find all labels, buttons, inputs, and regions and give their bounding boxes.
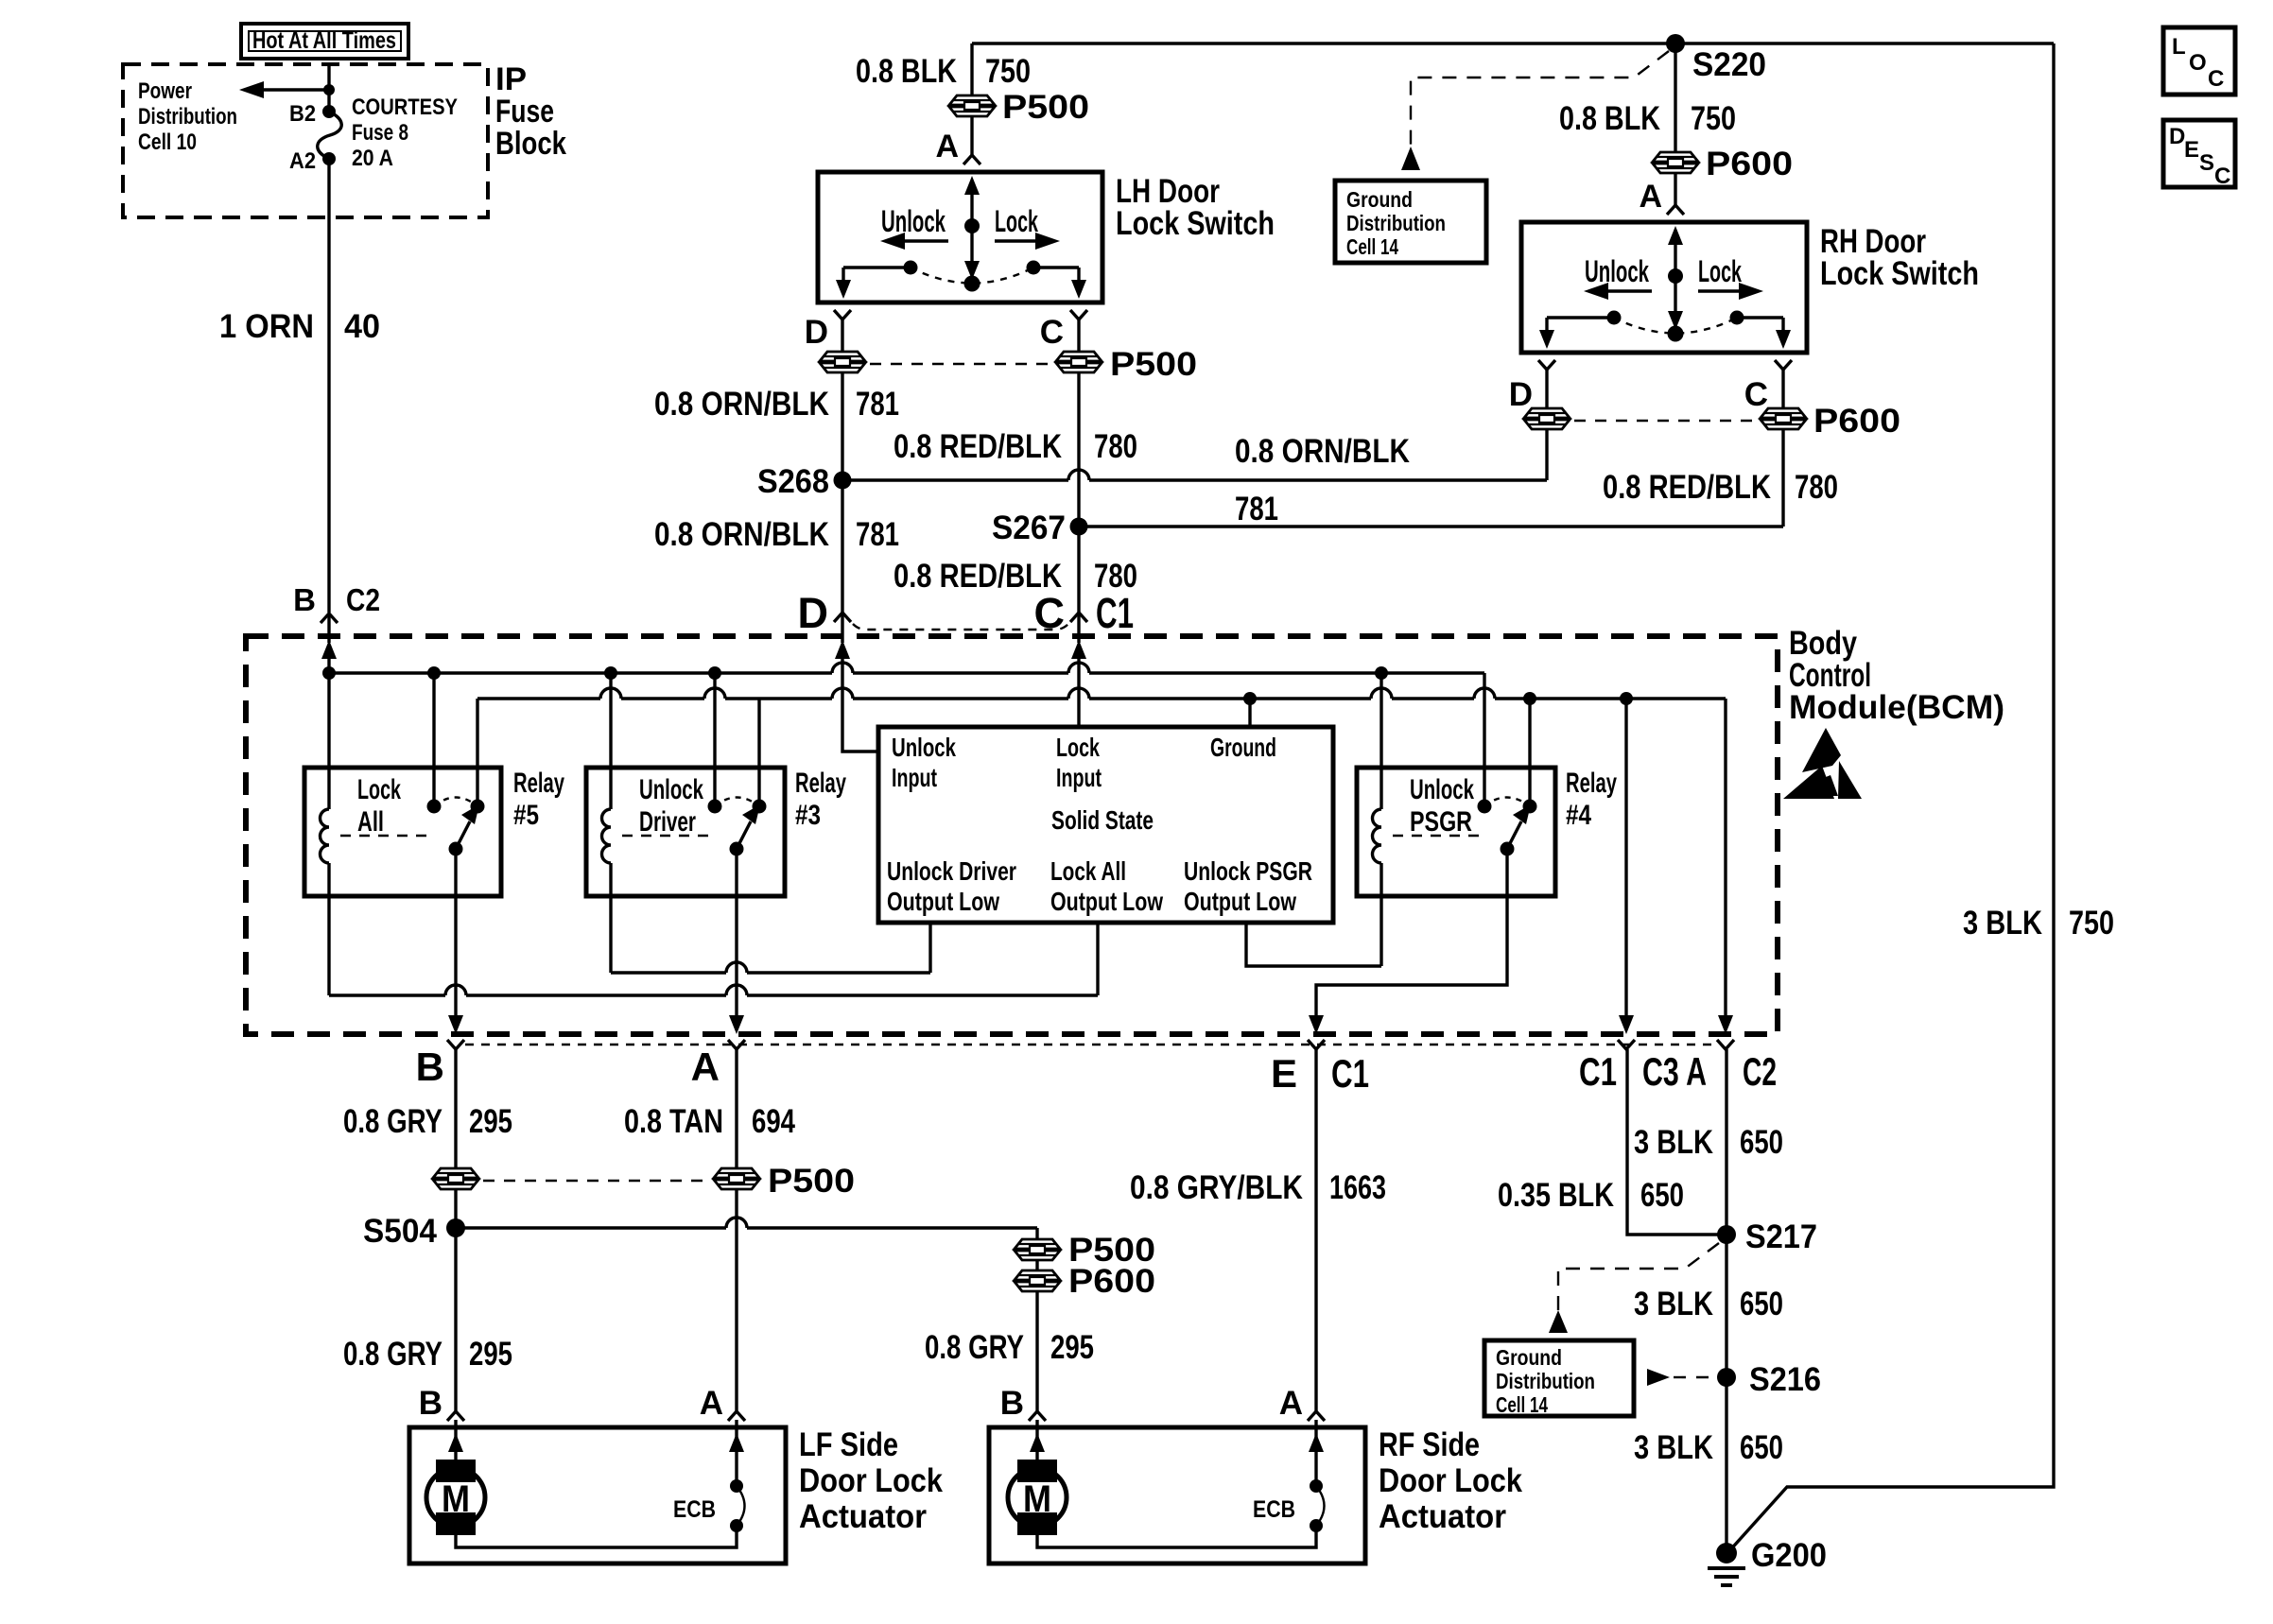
svg-text:S216: S216 bbox=[1749, 1361, 1821, 1398]
svg-text:20 A: 20 A bbox=[352, 146, 393, 171]
Solid State labels bbox=[887, 733, 1312, 916]
fuse COURTESY Fuse 8 20 A bbox=[318, 105, 342, 165]
svg-text:0.8 GRY/BLK: 0.8 GRY/BLK bbox=[1130, 1169, 1303, 1206]
svg-text:Unlock: Unlock bbox=[881, 204, 946, 238]
relay Unlock PSGR (Relay #4) box bbox=[1357, 768, 1555, 896]
svg-text:A: A bbox=[691, 1045, 720, 1089]
svg-text:Actuator: Actuator bbox=[1379, 1498, 1506, 1535]
wire Unlock Driver common to BCM pin A bbox=[729, 849, 744, 1034]
wire LH D P500 down to BCM pin D (0.8 ORN/BLK 781) bbox=[841, 372, 843, 613]
svg-text:Distribution: Distribution bbox=[1346, 211, 1446, 235]
wire LH D to P500 bbox=[841, 320, 843, 352]
connector P500 (RF branch) bbox=[1015, 1232, 1155, 1269]
connector P500 (B wire) bbox=[433, 1168, 478, 1189]
svg-text:0.8 GRY: 0.8 GRY bbox=[925, 1329, 1024, 1366]
svg-text:E: E bbox=[1271, 1051, 1297, 1096]
svg-text:3 BLK: 3 BLK bbox=[1963, 905, 2042, 942]
ESD sensitivity symbol bbox=[1783, 728, 1862, 799]
svg-text:A: A bbox=[1639, 179, 1662, 215]
LF Side Door Lock Actuator label bbox=[799, 1426, 943, 1535]
RF Side Door Lock Actuator box bbox=[989, 1427, 1365, 1564]
wire label 0.8 BLK 750 (LH) bbox=[856, 53, 1031, 90]
connector chevron at LH switch pin C bbox=[1070, 310, 1087, 320]
wire Lock All common to BCM pin B bbox=[448, 849, 463, 1034]
wire P600 to RF actuator B (0.8 GRY 295) bbox=[1035, 1291, 1038, 1411]
wire Lock All coil to Lock All Output Low bbox=[329, 923, 1098, 995]
svg-text:0.8 ORN/BLK: 0.8 ORN/BLK bbox=[654, 516, 829, 553]
wire label 0.8 GRY/BLK 1663 bbox=[1130, 1169, 1386, 1206]
svg-text:750: 750 bbox=[2069, 905, 2114, 942]
svg-text:C1: C1 bbox=[1579, 1049, 1617, 1094]
svg-text:IP: IP bbox=[495, 61, 527, 97]
wire from Hot At All Times into fuse block bbox=[327, 62, 330, 112]
Unlock PSGR relay contacts bbox=[1393, 673, 1537, 856]
Solid State box bbox=[878, 727, 1333, 923]
LH switch internals bbox=[836, 176, 1086, 299]
svg-text:781: 781 bbox=[1235, 491, 1278, 527]
svg-text:3 BLK: 3 BLK bbox=[1634, 1429, 1713, 1466]
wire label 0.8 ORN/BLK 781 (upper) bbox=[654, 386, 899, 423]
Body Control Module (BCM) dashed box bbox=[246, 636, 1778, 1034]
connector chevron at BCM pin D bbox=[834, 613, 851, 622]
svg-text:3 BLK: 3 BLK bbox=[1634, 1286, 1713, 1322]
wire S216 to G200 (3 BLK 650) bbox=[1725, 1377, 1727, 1553]
svg-text:Lock: Lock bbox=[1056, 733, 1100, 762]
connector chevron at RF actuator pin A bbox=[1308, 1411, 1325, 1421]
svg-text:Distribution: Distribution bbox=[138, 104, 237, 130]
wire Unlock PSGR common to BCM pin E bbox=[1309, 849, 1507, 1034]
svg-text:Ground: Ground bbox=[1496, 1345, 1562, 1370]
RF Side Door Lock Actuator label bbox=[1379, 1426, 1522, 1535]
ground G200 bbox=[1708, 1537, 1827, 1585]
svg-text:Power: Power bbox=[138, 78, 192, 104]
splice S268 bbox=[757, 463, 852, 500]
svg-text:694: 694 bbox=[752, 1103, 795, 1140]
splice S216 bbox=[1717, 1361, 1821, 1398]
wire D entry to Unlock Input (hops buses) bbox=[842, 663, 878, 752]
splice S220 bbox=[1666, 34, 1766, 83]
svg-text:Relay: Relay bbox=[1566, 768, 1617, 799]
svg-text:650: 650 bbox=[1740, 1124, 1783, 1161]
svg-text:0.8 GRY: 0.8 GRY bbox=[343, 1103, 442, 1140]
svg-text:A2: A2 bbox=[289, 148, 316, 174]
svg-text:P600: P600 bbox=[1706, 146, 1793, 182]
svg-text:1 ORN: 1 ORN bbox=[219, 308, 314, 345]
connector chevron at LH switch pin A bbox=[963, 155, 980, 164]
svg-text:Lock: Lock bbox=[357, 774, 401, 805]
wire RH D to P600 bbox=[1545, 370, 1548, 408]
svg-text:1663: 1663 bbox=[1329, 1169, 1386, 1206]
svg-text:P600: P600 bbox=[1813, 403, 1900, 440]
svg-text:Solid State: Solid State bbox=[1051, 805, 1154, 835]
BCM entry arrow at pin C2 bbox=[321, 640, 337, 673]
internal bus 1 (battery feed) bbox=[322, 663, 1484, 680]
svg-text:781: 781 bbox=[856, 516, 899, 553]
svg-text:C: C bbox=[2208, 66, 2224, 92]
dashed reference arrow to S216 bbox=[1647, 1369, 1713, 1386]
svg-text:0.8 TAN: 0.8 TAN bbox=[624, 1103, 723, 1140]
svg-text:Hot At All Times: Hot At All Times bbox=[252, 27, 396, 54]
wire label 0.8 GRY 295 bbox=[343, 1103, 512, 1140]
svg-text:Module(BCM): Module(BCM) bbox=[1789, 689, 2004, 726]
svg-text:0.8 ORN/BLK: 0.8 ORN/BLK bbox=[1235, 433, 1410, 470]
connector chevron at BCM pin C bbox=[1070, 613, 1087, 622]
svg-text:0.8 ORN/BLK: 0.8 ORN/BLK bbox=[654, 386, 829, 423]
wire LH C to P500 bbox=[1077, 320, 1080, 352]
svg-text:B: B bbox=[1000, 1385, 1024, 1422]
wire C entry to Lock Input (hops buses) bbox=[1077, 663, 1080, 727]
svg-text:ECB: ECB bbox=[1253, 1496, 1295, 1523]
Lock All label bbox=[357, 774, 401, 838]
connector chevron at BCM pin C2 (bottom right) bbox=[1717, 1040, 1734, 1049]
LH Door Lock Switch label bbox=[1116, 173, 1275, 242]
wire 1 ORN 40 from fuse to BCM pin C2 bbox=[327, 159, 330, 613]
svg-text:Driver: Driver bbox=[639, 806, 696, 838]
wire label 0.8 BLK 750 (RH) bbox=[1559, 100, 1736, 137]
wire 3 BLK 750 right side from top bus to G200 bbox=[1727, 43, 2054, 1553]
Relay #4 label bbox=[1566, 768, 1617, 831]
Lock All relay coil bbox=[321, 673, 330, 995]
svg-text:0.8 BLK: 0.8 BLK bbox=[856, 53, 957, 90]
wire S217 to S216 (3 BLK 650) bbox=[1725, 1235, 1727, 1377]
svg-text:LF Side: LF Side bbox=[799, 1426, 898, 1463]
svg-text:Lock Switch: Lock Switch bbox=[1820, 255, 1979, 292]
BCM entry arrow at pin D bbox=[835, 640, 850, 663]
wire BCM C2 to S217 (3 BLK 650) bbox=[1725, 1049, 1727, 1235]
connector P600 (RF branch) bbox=[1015, 1260, 1155, 1300]
BCM entry arrow at pin C bbox=[1071, 640, 1086, 663]
svg-text:A: A bbox=[935, 129, 959, 164]
internal bus 2 bbox=[477, 688, 1726, 705]
wire BCM B to P500 (0.8 GRY 295) bbox=[454, 1049, 457, 1168]
svg-text:B: B bbox=[419, 1385, 442, 1422]
Relay #3 label bbox=[795, 768, 846, 831]
wire label 0.8 ORN/BLK 781 (on long run) bbox=[1235, 433, 1410, 527]
wire label 3 BLK 650 (lower) bbox=[1634, 1429, 1783, 1466]
pin label B C2 at BCM top bbox=[293, 582, 380, 617]
svg-text:Block: Block bbox=[495, 126, 566, 162]
svg-text:Unlock: Unlock bbox=[1410, 774, 1474, 805]
relay Lock All (Relay #5) box bbox=[304, 768, 501, 896]
relay Unlock Driver (Relay #3) box bbox=[586, 768, 785, 896]
svg-text:Relay: Relay bbox=[513, 768, 564, 799]
svg-text:E: E bbox=[2184, 137, 2199, 163]
connector chevron at RH switch pin C bbox=[1775, 360, 1792, 370]
svg-text:295: 295 bbox=[1050, 1329, 1094, 1366]
wire label 0.8 RED/BLK 780 (upper) bbox=[894, 428, 1137, 465]
wire Unlock PSGR Output Low to coil bbox=[1246, 923, 1381, 966]
wire S268 to RH switch pin D (hop over LH C wire) bbox=[842, 429, 1547, 480]
pin E C1 label (BCM bottom) bbox=[1271, 1051, 1369, 1096]
splice S504 bbox=[363, 1213, 465, 1250]
svg-text:A: A bbox=[1279, 1385, 1303, 1422]
svg-text:#4: #4 bbox=[1566, 800, 1591, 831]
wire down to LH switch P500 bbox=[970, 43, 973, 95]
svg-text:Unlock: Unlock bbox=[892, 733, 956, 762]
LF actuator internal wire to ECB bbox=[456, 1526, 737, 1547]
LF actuator ECB switch bbox=[673, 1427, 745, 1532]
IP Fuse Block dashed box bbox=[123, 64, 488, 217]
svg-text:0.8 GRY: 0.8 GRY bbox=[343, 1336, 442, 1373]
svg-text:S267: S267 bbox=[992, 510, 1066, 546]
svg-text:Door Lock: Door Lock bbox=[1379, 1462, 1522, 1499]
svg-text:COURTESY: COURTESY bbox=[352, 95, 458, 120]
RH Door Lock Switch label bbox=[1820, 223, 1979, 292]
LOC reference box bbox=[2163, 27, 2235, 95]
svg-text:Input: Input bbox=[1056, 763, 1102, 792]
connector C1 dashed outline (BCM top) bbox=[853, 624, 1068, 630]
svg-text:Lock: Lock bbox=[995, 204, 1038, 238]
svg-text:All: All bbox=[357, 806, 384, 838]
connector P500 (A wire) bbox=[483, 1163, 855, 1200]
svg-text:S220: S220 bbox=[1692, 46, 1766, 83]
svg-text:C: C bbox=[1040, 314, 1064, 351]
svg-text:L: L bbox=[2172, 34, 2186, 60]
RF actuator motor M bbox=[1008, 1427, 1067, 1535]
wire S504 to RF actuator branch (hop over A wire) bbox=[456, 1218, 1037, 1239]
dashed reference from S220 to Ground Distribution Cell 14 bbox=[1401, 51, 1669, 170]
splice S267 bbox=[992, 510, 1088, 546]
svg-text:650: 650 bbox=[1740, 1286, 1783, 1322]
svg-text:40: 40 bbox=[344, 308, 380, 345]
svg-text:M: M bbox=[1023, 1478, 1051, 1520]
svg-text:PSGR: PSGR bbox=[1410, 806, 1472, 838]
svg-text:781: 781 bbox=[856, 386, 899, 423]
connector chevron at BCM pin E (bottom) bbox=[1308, 1040, 1325, 1049]
wire label 0.8 TAN 694 bbox=[624, 1103, 795, 1140]
wire 0.8 BLK 750 top bus from LH switch to right edge bbox=[972, 42, 2054, 44]
svg-text:S504: S504 bbox=[363, 1213, 438, 1250]
Power Distribution Cell 10 label bbox=[138, 78, 237, 155]
connector chevron at BCM pin B (bottom) bbox=[447, 1040, 464, 1049]
Lock All relay contacts bbox=[340, 673, 485, 856]
svg-text:0.35 BLK: 0.35 BLK bbox=[1498, 1177, 1614, 1214]
svg-text:Ground: Ground bbox=[1346, 187, 1413, 212]
wire label 0.8 RED/BLK 780 (lower) bbox=[894, 558, 1137, 595]
svg-text:#5: #5 bbox=[513, 800, 539, 831]
svg-text:Door Lock: Door Lock bbox=[799, 1462, 943, 1499]
svg-text:P600: P600 bbox=[1068, 1263, 1155, 1300]
wire LH C P500 down to BCM pin C (0.8 RED/BLK 780) bbox=[1077, 372, 1080, 613]
svg-text:Input: Input bbox=[892, 763, 937, 792]
svg-text:D: D bbox=[2169, 124, 2185, 149]
svg-text:C1: C1 bbox=[1331, 1051, 1369, 1096]
wire label 0.35 BLK 650 bbox=[1498, 1177, 1684, 1214]
wire S267 to RH switch pin C bbox=[1079, 429, 1783, 527]
svg-text:D: D bbox=[805, 314, 828, 351]
wire P500 to S504 bbox=[454, 1189, 457, 1228]
Unlock Driver relay coil bbox=[602, 673, 612, 973]
svg-text:Actuator: Actuator bbox=[799, 1498, 927, 1535]
svg-text:M: M bbox=[442, 1478, 470, 1520]
wire P500 to LH switch pin A bbox=[970, 116, 973, 155]
wire P500 A to LF actuator A bbox=[735, 1189, 737, 1411]
svg-text:Lock: Lock bbox=[1698, 254, 1742, 288]
Hot At All Times box bbox=[241, 24, 408, 59]
svg-text:Ground: Ground bbox=[1210, 733, 1276, 762]
wire label 0.8 GRY 295 (lower left) bbox=[343, 1336, 512, 1373]
svg-text:#3: #3 bbox=[795, 800, 821, 831]
svg-text:Fuse 8: Fuse 8 bbox=[352, 120, 408, 146]
RF actuator ECB switch bbox=[1253, 1427, 1325, 1532]
wire label 3 BLK 750 bbox=[1963, 905, 2114, 942]
connector P500 pair below LH switch bbox=[820, 346, 1197, 383]
svg-text:3 BLK: 3 BLK bbox=[1634, 1124, 1713, 1161]
wire Unlock Driver coil to Unlock Driver Output Low bbox=[611, 923, 930, 973]
connector chevron at BCM pin C1 (bottom right) bbox=[1618, 1040, 1635, 1049]
connector chevron at RH switch pin D bbox=[1538, 360, 1555, 370]
svg-text:C3 A: C3 A bbox=[1642, 1049, 1707, 1094]
svg-text:G200: G200 bbox=[1751, 1537, 1827, 1574]
wire S220 down to P600 bbox=[1674, 43, 1676, 152]
wire bus2 to BCM pin C2 bbox=[1718, 699, 1733, 1034]
svg-text:Unlock Driver: Unlock Driver bbox=[887, 856, 1016, 886]
IP Fuse Block label bbox=[495, 61, 566, 162]
splice S217 bbox=[1717, 1218, 1817, 1255]
svg-text:Unlock: Unlock bbox=[639, 774, 703, 805]
wire BCM E to RF actuator A (0.8 GRY/BLK 1663) bbox=[1314, 1049, 1317, 1411]
svg-text:Relay: Relay bbox=[795, 768, 846, 799]
svg-text:Unlock PSGR: Unlock PSGR bbox=[1184, 856, 1312, 886]
wire label 0.8 ORN/BLK 781 (lower) bbox=[654, 516, 899, 553]
svg-text:750: 750 bbox=[985, 53, 1031, 90]
svg-text:Lock All: Lock All bbox=[1050, 856, 1126, 886]
svg-text:Cell 10: Cell 10 bbox=[138, 130, 197, 155]
svg-text:Distribution: Distribution bbox=[1496, 1369, 1595, 1393]
svg-text:C2: C2 bbox=[346, 582, 380, 617]
svg-text:C: C bbox=[1744, 376, 1768, 413]
wire label 0.8 GRY 295 (RF) bbox=[925, 1329, 1094, 1366]
svg-text:D: D bbox=[798, 589, 829, 637]
svg-text:650: 650 bbox=[1640, 1177, 1684, 1214]
dashed reference from S217 to Ground Distribution Cell 14 bbox=[1549, 1243, 1719, 1333]
BCM bottom connector dashed outline bbox=[465, 1044, 1716, 1045]
svg-text:780: 780 bbox=[1795, 469, 1838, 506]
svg-text:C1: C1 bbox=[1096, 589, 1134, 637]
LF Side Door Lock Actuator box bbox=[409, 1427, 786, 1564]
wire label 1 ORN 40 bbox=[219, 308, 380, 345]
wire RH C to P600 bbox=[1781, 370, 1784, 408]
svg-text:Cell 14: Cell 14 bbox=[1346, 234, 1398, 259]
wire label 3 BLK 650 (upper) bbox=[1634, 1124, 1783, 1161]
svg-text:Fuse: Fuse bbox=[495, 94, 554, 130]
Ground Distribution Cell 14 box (top) bbox=[1335, 181, 1486, 263]
svg-text:P500: P500 bbox=[1002, 89, 1089, 126]
Unlock PSGR relay coil bbox=[1373, 673, 1382, 966]
svg-text:295: 295 bbox=[469, 1103, 512, 1140]
wire label 3 BLK 650 (middle) bbox=[1634, 1286, 1783, 1322]
connector chevron at LF actuator pin B bbox=[447, 1411, 464, 1421]
LF actuator motor M bbox=[426, 1427, 485, 1535]
svg-text:Unlock: Unlock bbox=[1585, 254, 1649, 288]
svg-text:C2: C2 bbox=[1743, 1049, 1777, 1094]
LH Door Lock Switch box bbox=[818, 172, 1102, 302]
wire P600 to RH switch pin A bbox=[1674, 173, 1676, 205]
svg-text:RF Side: RF Side bbox=[1379, 1426, 1480, 1463]
arrow to Power Distribution Cell 10 bbox=[239, 81, 335, 98]
svg-text:B: B bbox=[293, 582, 316, 617]
svg-text:780: 780 bbox=[1094, 428, 1137, 465]
DESC reference box bbox=[2163, 120, 2235, 189]
wire bus2 to BCM pin C1 bbox=[1619, 699, 1634, 1034]
pin C C1 label (BCM top) bbox=[1034, 589, 1135, 637]
wire S504 down to LF actuator B (0.8 GRY 295) bbox=[454, 1228, 457, 1411]
svg-text:C: C bbox=[2214, 164, 2230, 189]
RH switch internals bbox=[1539, 226, 1791, 349]
svg-text:650: 650 bbox=[1740, 1429, 1783, 1466]
svg-text:P500: P500 bbox=[768, 1163, 855, 1200]
Body Control Module (BCM) label bbox=[1789, 625, 2004, 726]
svg-text:750: 750 bbox=[1691, 100, 1736, 137]
Unlock PSGR label bbox=[1410, 774, 1474, 838]
connector P600 pair below RH switch bbox=[1524, 403, 1900, 440]
svg-text:0.8 RED/BLK: 0.8 RED/BLK bbox=[1603, 469, 1771, 506]
RF actuator internal wire to ECB bbox=[1037, 1526, 1316, 1547]
connector chevron at BCM pin C2 bbox=[321, 613, 338, 623]
svg-text:0.8 BLK: 0.8 BLK bbox=[1559, 100, 1660, 137]
Ground Distribution Cell 14 box (bottom) bbox=[1484, 1340, 1634, 1417]
connector chevron at LF actuator pin A bbox=[728, 1411, 745, 1421]
connector chevron at LH switch pin D bbox=[834, 310, 851, 320]
svg-text:S268: S268 bbox=[757, 463, 829, 500]
svg-text:B: B bbox=[416, 1045, 444, 1089]
svg-text:A: A bbox=[700, 1385, 723, 1422]
svg-text:Output Low: Output Low bbox=[887, 887, 999, 916]
connector P500 (LH switch feed) bbox=[949, 89, 1089, 126]
Unlock Driver relay contacts bbox=[622, 673, 767, 856]
connector chevron at RF actuator pin B bbox=[1029, 1411, 1046, 1421]
svg-text:Cell 14: Cell 14 bbox=[1496, 1392, 1548, 1417]
wire label 0.8 RED/BLK 780 (on long run) bbox=[1603, 469, 1838, 506]
wire bus2 to Ground pin bbox=[1248, 699, 1251, 727]
Unlock Driver label bbox=[639, 774, 703, 838]
svg-text:S: S bbox=[2199, 150, 2214, 176]
RH Door Lock Switch box bbox=[1521, 222, 1807, 353]
svg-text:Output Low: Output Low bbox=[1050, 887, 1163, 916]
wire BCM A to P500 (0.8 TAN 694) bbox=[735, 1049, 737, 1168]
svg-text:D: D bbox=[1509, 376, 1533, 413]
Relay #5 label bbox=[513, 768, 564, 831]
svg-text:0.8 RED/BLK: 0.8 RED/BLK bbox=[894, 428, 1062, 465]
fuse value label bbox=[352, 95, 458, 171]
svg-text:P500: P500 bbox=[1110, 346, 1197, 383]
connector chevron at RH switch pin A bbox=[1667, 205, 1684, 215]
svg-text:B2: B2 bbox=[289, 101, 316, 127]
svg-text:Lock Switch: Lock Switch bbox=[1116, 205, 1275, 242]
svg-text:S217: S217 bbox=[1745, 1218, 1817, 1255]
connector P600 (RH switch feed) bbox=[1653, 146, 1793, 182]
wire BCM C1 to S217 (0.35 BLK 650) bbox=[1627, 1049, 1727, 1235]
svg-text:O: O bbox=[2189, 50, 2207, 76]
svg-text:Output Low: Output Low bbox=[1184, 887, 1296, 916]
svg-text:295: 295 bbox=[469, 1336, 512, 1373]
svg-text:ECB: ECB bbox=[673, 1496, 716, 1523]
connector chevron at BCM pin A (bottom) bbox=[728, 1040, 745, 1049]
